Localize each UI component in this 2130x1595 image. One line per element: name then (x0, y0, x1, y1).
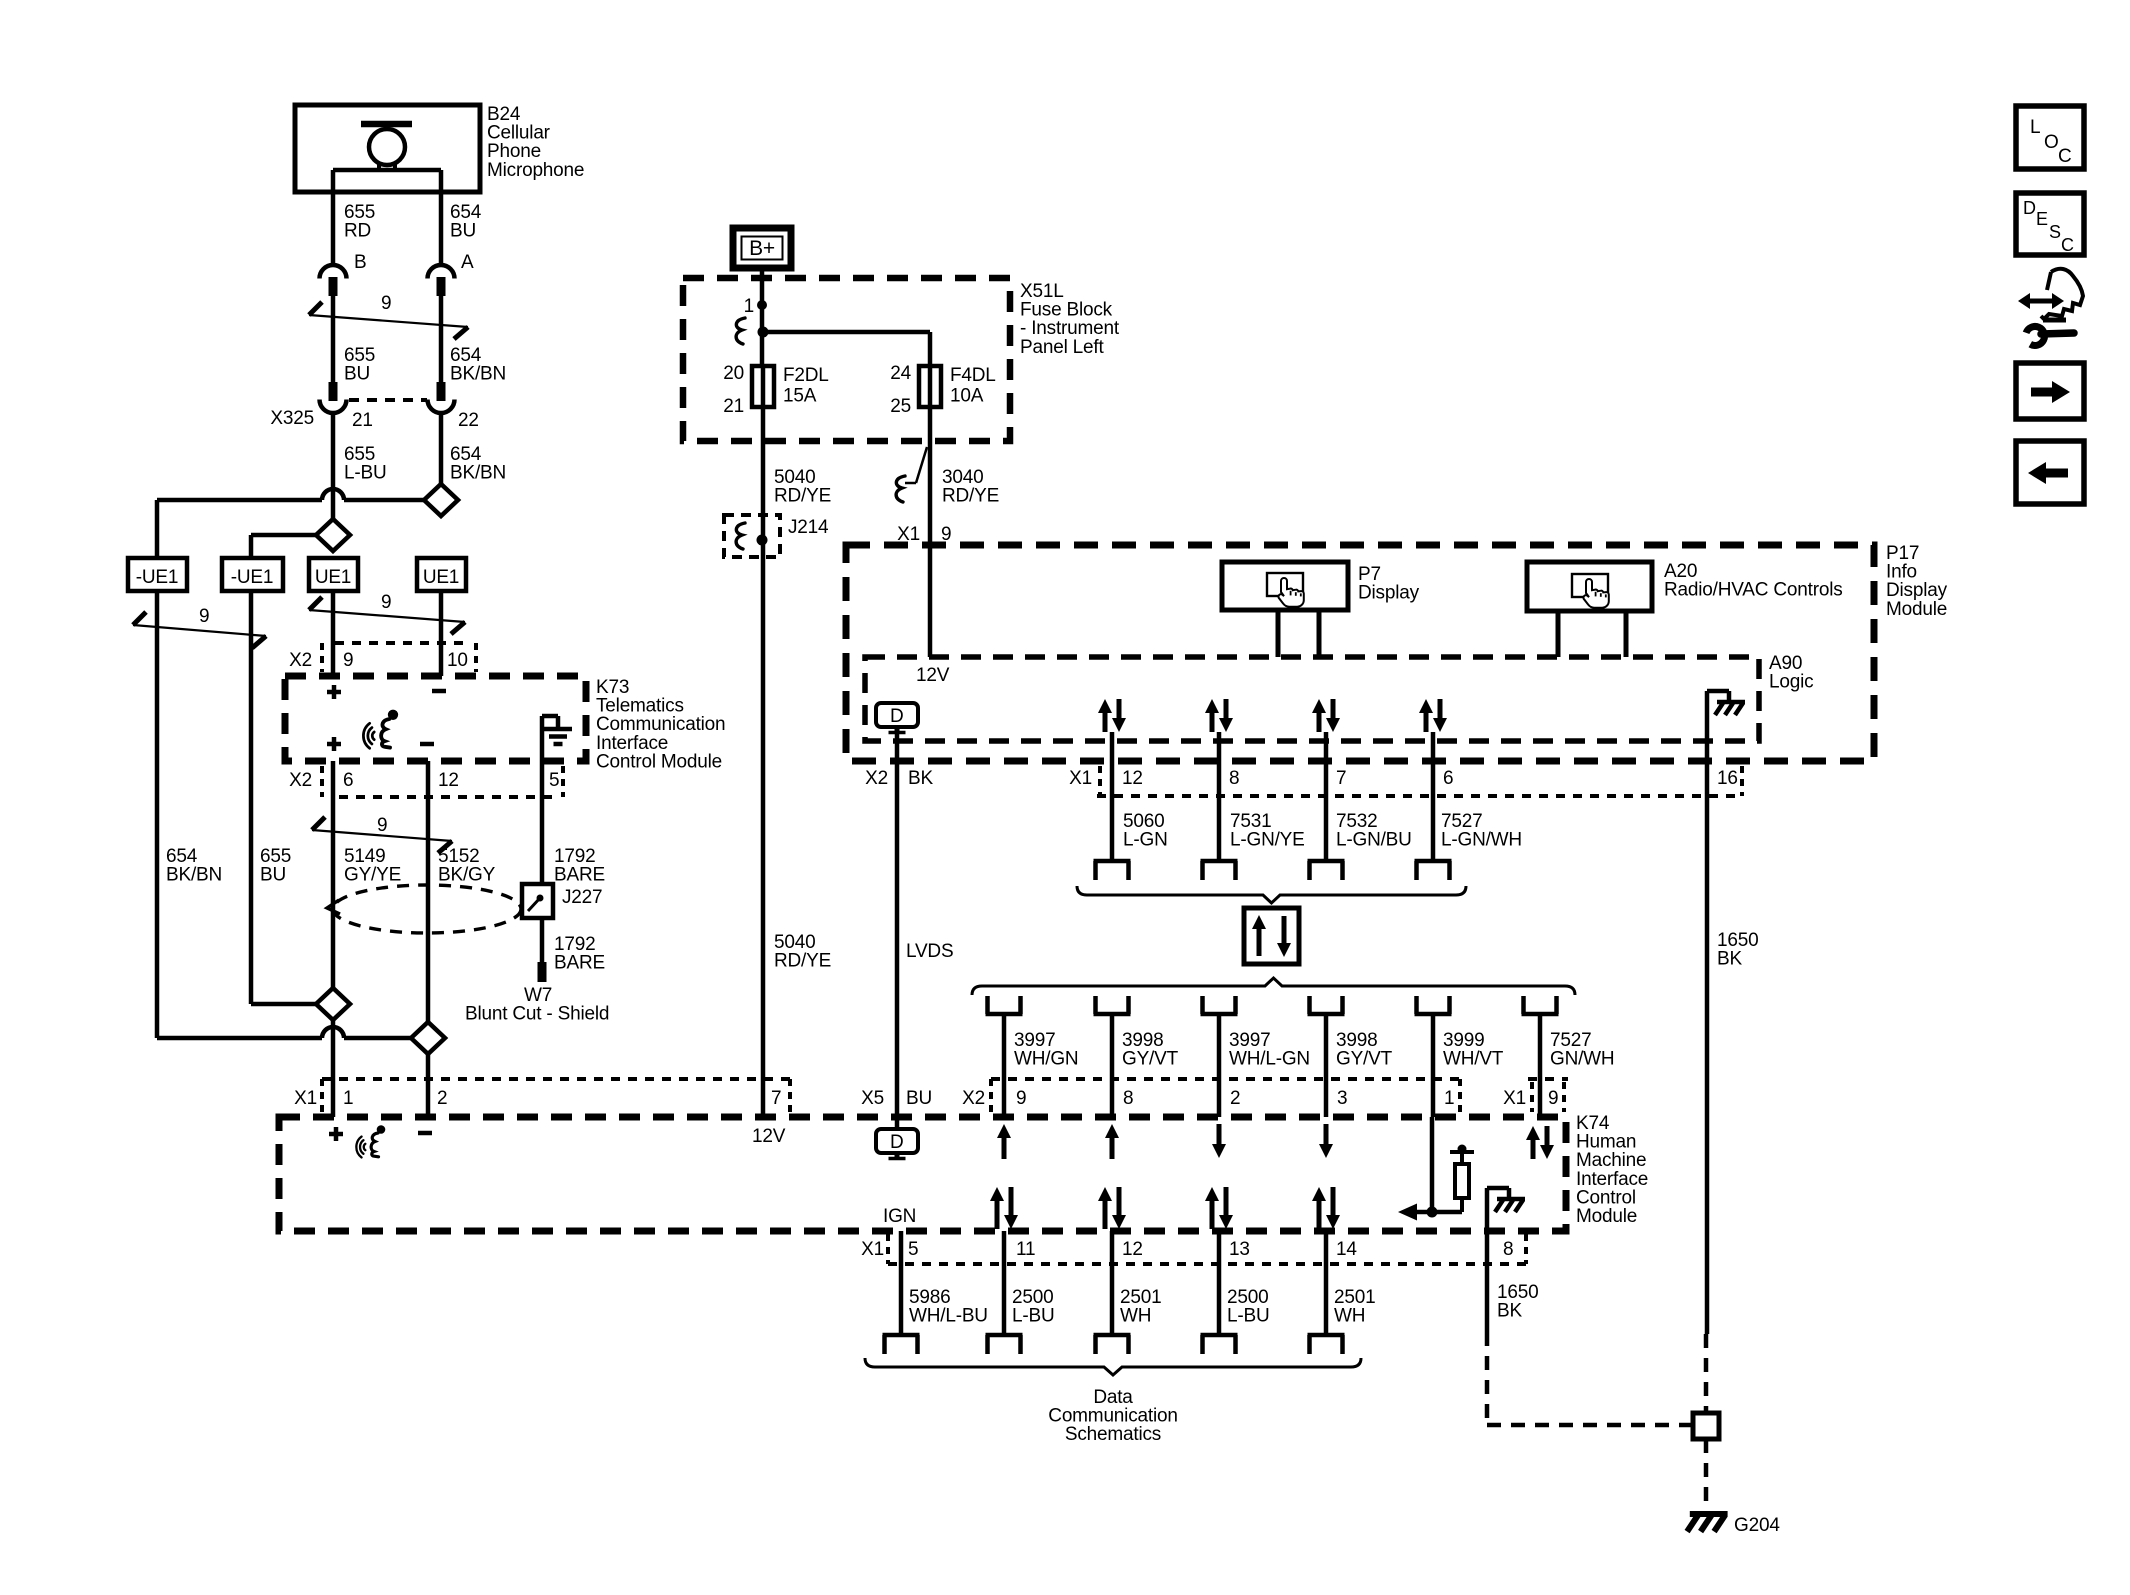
bus node arrow inside K74 (1398, 1204, 1462, 1221)
wire 654/5152 splice branch (with hop over 5149) (157, 1027, 411, 1038)
ground G204 (1687, 1514, 1728, 1532)
bus junction inside X51L (736, 318, 768, 344)
svg-text:X2: X2 (289, 650, 312, 671)
wire 5149 GY/YE from K73 pin 6 (331, 761, 336, 988)
wire branch 655 BU to left (251, 535, 316, 558)
wire BK (LVDS) from display D (895, 731, 900, 1129)
K74 receive arrow (pin 9) (997, 1124, 1011, 1159)
svg-text:5: 5 (908, 1239, 918, 1260)
svg-text:C: C (2061, 235, 2074, 255)
label P7 Display (1358, 564, 1420, 604)
label wire 5986 WH/L-BU (909, 1287, 988, 1327)
connector X1 pin 9 into P17 (897, 524, 951, 545)
svg-text:6: 6 (1443, 768, 1453, 789)
svg-text:9: 9 (381, 293, 391, 314)
bundle brace lower (972, 978, 1575, 995)
svg-text:S: S (2049, 222, 2061, 242)
cable terminal bus wire 3998 GY/VT (1308, 996, 1345, 1014)
splice J227 (522, 884, 553, 918)
svg-text:12: 12 (438, 770, 459, 791)
label wire 2500 L-BU (1012, 1287, 1055, 1327)
wire 1792 BARE from K73 pin 5 (540, 761, 545, 884)
svg-text:BU: BU (344, 364, 370, 385)
splice diamond 5152/654 (411, 1022, 445, 1054)
svg-text:B: B (354, 252, 366, 273)
svg-text:X1: X1 (1503, 1088, 1526, 1109)
data arrows in A90 (pin 8) (1205, 699, 1233, 732)
svg-text:Display: Display (1358, 583, 1420, 604)
svg-text:5: 5 (549, 770, 559, 791)
wire 2501 WH from K74 (1324, 1231, 1329, 1335)
label wire 654 BK/BN below X325 (450, 444, 506, 484)
label A20 Radio/HVAC Controls (1664, 561, 1843, 601)
svg-text:3: 3 (1337, 1088, 1347, 1109)
wire 654 BU from B24 pin A (439, 170, 444, 266)
svg-text:L-GN/YE: L-GN/YE (1230, 830, 1305, 851)
svg-text:LVDS: LVDS (906, 941, 953, 962)
svg-text:Control Module: Control Module (596, 751, 722, 772)
svg-text:RD/YE: RD/YE (774, 486, 831, 507)
label LVDS (906, 941, 953, 962)
svg-text:IGN: IGN (883, 1206, 916, 1227)
svg-text:9: 9 (343, 650, 353, 671)
svg-text:6: 6 (343, 770, 353, 791)
module P17 Info Display Module dashed box (846, 545, 1874, 761)
label wire 3997 WH/L-GN (1229, 1030, 1310, 1070)
K73 microphone - terminal (lower) (420, 742, 434, 747)
bundle brace Data Communication Schematics (865, 1358, 1361, 1375)
wire 2500 L-BU from K74 (1002, 1231, 1007, 1335)
cable terminal wire 2501 (1094, 1335, 1131, 1354)
label wire 5040 RD/YE (774, 467, 831, 507)
svg-text:G204: G204 (1734, 1515, 1780, 1536)
wire 2501 WH from K74 (1110, 1231, 1115, 1335)
svg-text:GN/WH: GN/WH (1550, 1049, 1614, 1070)
svg-text:-UE1: -UE1 (231, 567, 274, 588)
svg-text:25: 25 (890, 396, 911, 417)
connector X325 pin 21 terminal (320, 382, 347, 413)
svg-text:RD/YE: RD/YE (942, 486, 999, 507)
connector X2 of K73 top row (289, 643, 476, 672)
svg-text:BK/GY: BK/GY (438, 865, 496, 886)
svg-text:11: 11 (1016, 1239, 1035, 1260)
svg-text:BU: BU (906, 1088, 932, 1109)
svg-text:GY/VT: GY/VT (1122, 1049, 1179, 1070)
svg-text:X1: X1 (1069, 768, 1092, 789)
wire UE1 drop to K73 pin 10 (439, 591, 444, 676)
svg-text:E: E (2036, 209, 2048, 229)
svg-text:10A: 10A (950, 386, 984, 407)
inline connector terminal on wire 655 (pin B) (320, 265, 347, 296)
K74 microphone + terminal (329, 1127, 343, 1141)
data arrows in A90 (pin 7) (1312, 699, 1340, 732)
label J227 (562, 887, 602, 908)
svg-text:BK: BK (1717, 949, 1742, 970)
wire 3998 GY/VT segment (1110, 1014, 1115, 1117)
terminating resistor inside K74 (1450, 1145, 1474, 1213)
label 12V at P17 pin 9 (916, 665, 950, 686)
svg-text:12: 12 (1122, 768, 1143, 789)
wire 655 BU left drop (249, 591, 254, 1004)
svg-text:UE1: UE1 (423, 567, 459, 588)
label wire 5060 L-GN (1123, 811, 1168, 851)
svg-text:12V: 12V (916, 665, 950, 686)
svg-text:9: 9 (199, 606, 209, 627)
touch screen icon in A20 (1572, 574, 1609, 608)
svg-text:22: 22 (458, 410, 479, 431)
twisted pair marker 9 (right pair) (309, 592, 465, 634)
label wire 655 RD (344, 202, 375, 242)
svg-text:15A: 15A (783, 386, 817, 407)
svg-text:X2: X2 (865, 768, 888, 789)
K74 receive arrow (pin 8) (1105, 1124, 1119, 1159)
cable terminal wire 2500 (1201, 1335, 1238, 1354)
wire drop to K74 X1 pin 1 (331, 1020, 336, 1117)
wire 5060 L-GN from P17 pin 12 (1110, 732, 1115, 859)
svg-text:8: 8 (1229, 768, 1239, 789)
pin A of B24 (461, 252, 474, 273)
wire 655 BU segment (331, 296, 336, 383)
pin 22 of X325 (458, 410, 479, 431)
svg-text:GY/YE: GY/YE (344, 865, 401, 886)
cable terminal bus wire 3997 WH/L-GN (1201, 996, 1238, 1014)
svg-text:1: 1 (744, 296, 754, 317)
data arrows in A90 (pin 12) (1098, 699, 1126, 732)
twisted pair marker 9 (below K73) (312, 815, 452, 853)
svg-text:7: 7 (1336, 768, 1346, 789)
wire 655 L-BU segment to splice (331, 412, 336, 519)
svg-text:13: 13 (1229, 1239, 1250, 1260)
svg-text:L: L (2030, 117, 2040, 138)
splice diamond 5149/655 (316, 988, 350, 1020)
data bus icon (1244, 908, 1299, 964)
svg-text:UE1: UE1 (315, 567, 351, 588)
pin 21 of X325 (352, 410, 373, 431)
svg-text:BK/BN: BK/BN (450, 463, 506, 484)
connector X325 pin 22 terminal (428, 382, 455, 413)
label wire 654 BK/BN (450, 345, 506, 385)
cable terminal wire 2500 (986, 1335, 1023, 1354)
wire 7527 L-GN/WH from P17 pin 6 (1431, 732, 1436, 859)
splice J214 dashed box (724, 515, 780, 557)
in-line harness label UE1 (wire 5152) (417, 558, 466, 591)
connector row X1 under K74 (861, 1234, 1526, 1264)
logic block A90 dashed box (865, 657, 1759, 741)
svg-text:Blunt Cut - Shield: Blunt Cut - Shield (465, 1004, 609, 1025)
label K73 Telematics Communication Interface Control Module (596, 677, 725, 772)
label P17 Info Display Module (1886, 543, 1948, 620)
data arrows in A90 (pin 6) (1419, 699, 1447, 732)
touch screen icon in P7 (1267, 573, 1304, 607)
cable terminal bus wire 3999 WH/VT (1415, 996, 1452, 1014)
connector row X2/X1 above K74 (861, 1079, 1568, 1112)
svg-text:X1: X1 (861, 1239, 884, 1260)
svg-text:C: C (2058, 146, 2072, 167)
wire 3040 RD/YE from fuse F4DL (928, 407, 933, 657)
module K74 Human Machine Interface Control Module dashed box (279, 1117, 1566, 1231)
svg-text:L-BU: L-BU (344, 463, 387, 484)
svg-text:L-BU: L-BU (1012, 1306, 1055, 1327)
svg-text:BK/BN: BK/BN (450, 364, 506, 385)
svg-text:WH/L-BU: WH/L-BU (909, 1306, 988, 1327)
svg-text:B+: B+ (749, 237, 775, 260)
splice diamond on wire 655 (316, 519, 350, 551)
cable terminal bus wire 7527 GN/WH (1522, 996, 1559, 1014)
dashed wire to G204 (1704, 1439, 1709, 1501)
wire drop to K74 X1 pin 2 (426, 1054, 431, 1117)
svg-text:L-BU: L-BU (1227, 1306, 1270, 1327)
svg-text:9: 9 (377, 815, 387, 836)
wire 7527 GN/WH segment (1538, 1014, 1543, 1117)
label W7 Blunt Cut - Shield (465, 985, 609, 1025)
cable terminal pin 8 wire (1201, 861, 1238, 880)
shield drain oval around 5149/5152 (327, 885, 521, 933)
svg-text:-UE1: -UE1 (136, 567, 179, 588)
svg-text:20: 20 (723, 363, 744, 384)
wire 3997 WH/L-GN segment (1217, 1014, 1222, 1117)
svg-text:L-GN/WH: L-GN/WH (1441, 830, 1522, 851)
svg-text:X1: X1 (294, 1088, 317, 1109)
ground splice node (1693, 1413, 1719, 1439)
label wire 5040 RD/YE lower (774, 932, 831, 972)
label wire 3999 WH/VT (1443, 1030, 1504, 1070)
K73 microphone + terminal (upper) (327, 685, 341, 699)
connector row X1 of K74 (left) (294, 1079, 790, 1112)
wire 5040 RD/YE from fuse F2DL (761, 407, 766, 1117)
ground symbol inside A90 (1707, 691, 1745, 761)
splice diamond on wire 654 (424, 484, 458, 516)
label wire 7532 L-GN/BU (1336, 811, 1412, 851)
labels fuse F4DL 10A pins 24/25 (890, 363, 995, 417)
svg-text:7: 7 (771, 1088, 781, 1109)
bus wire to fuse F4DL (763, 332, 930, 366)
K73 microphone - terminal (upper) (432, 689, 446, 694)
svg-text:12: 12 (1122, 1239, 1143, 1260)
wire 1650 BK from K74 pin 8 (1485, 1231, 1490, 1332)
svg-text:Logic: Logic (1769, 672, 1813, 693)
bundle brace upper (1077, 886, 1466, 903)
wire from B+ into fuse block (760, 268, 765, 332)
K74 bus arrows above pin 14 (1312, 1187, 1340, 1229)
label wire 1650 BK left (1497, 1282, 1538, 1322)
K74 transmit arrow (pin 3) (1319, 1124, 1333, 1158)
svg-text:D: D (2023, 198, 2036, 218)
label wire 1792 BARE below J227 (554, 934, 605, 974)
svg-text:BARE: BARE (554, 953, 605, 974)
wire into fuse F2DL (760, 332, 765, 366)
wire branch 654 BK/BN to left (with hop over 655) (157, 489, 424, 558)
svg-text:J214: J214 (788, 517, 829, 538)
svg-text:9: 9 (381, 592, 391, 613)
label wire 7527 GN/WH (1550, 1030, 1614, 1070)
sidebar icon DESC (2016, 193, 2084, 255)
label 12V inside K74 (752, 1126, 786, 1147)
microphone pictograph inside K74 (356, 1125, 385, 1157)
label wire 1650 BK right (1717, 930, 1758, 970)
label wire 655 BU (344, 345, 375, 385)
wire 1650 BK dashed to ground splice (1487, 1332, 1693, 1425)
svg-text:BK/BN: BK/BN (166, 865, 222, 886)
svg-text:X5: X5 (861, 1088, 884, 1109)
svg-text:8: 8 (1123, 1088, 1133, 1109)
wire 5152 BK/GY from K73 pin 12 (426, 761, 431, 1022)
label wire 655 BU left column (260, 846, 291, 886)
svg-text:8: 8 (1503, 1239, 1513, 1260)
svg-text:RD: RD (344, 221, 371, 242)
wire 1650 BK from P17 pin 16 (1705, 761, 1710, 1334)
K74 bus arrows above pin 13 (1205, 1187, 1233, 1229)
display D icon in A90 (876, 703, 918, 733)
component A20 Radio/HVAC Controls box (1527, 562, 1652, 657)
svg-text:Microphone: Microphone (487, 160, 584, 181)
svg-text:Module: Module (1576, 1206, 1637, 1227)
svg-text:21: 21 (723, 396, 744, 417)
microphone symbol inside B24 (333, 124, 441, 170)
label wire 2500 L-BU (1227, 1287, 1270, 1327)
fuse F4DL 10A (919, 366, 941, 407)
svg-text:Panel Left: Panel Left (1020, 337, 1104, 358)
label wire 3998 GY/VT (1336, 1030, 1393, 1070)
sidebar icon LOC (2016, 106, 2084, 169)
display D icon in K74 (876, 1129, 918, 1159)
svg-text:WH/GN: WH/GN (1014, 1049, 1078, 1070)
wire 3999 WH/VT segment (1431, 1014, 1436, 1117)
svg-text:RD/YE: RD/YE (774, 951, 831, 972)
connector X325 dashed row (349, 398, 427, 402)
K74 bus arrows at pin X1-9 (1526, 1126, 1554, 1159)
svg-text:2: 2 (437, 1088, 447, 1109)
svg-text:1: 1 (343, 1088, 353, 1109)
svg-text:24: 24 (890, 363, 911, 384)
label wire 3997 WH/GN (1014, 1030, 1078, 1070)
label G204 (1734, 1515, 1780, 1536)
wire 7532 L-GN/BU from P17 pin 7 (1324, 732, 1329, 859)
label J214 (788, 517, 829, 538)
twisted pair marker 9 (top) (309, 293, 468, 339)
label X51L Fuse Block - Instrument Panel Left (1020, 281, 1120, 358)
svg-text:Module: Module (1886, 599, 1947, 620)
label wire 2501 WH (1334, 1287, 1375, 1327)
svg-text:F2DL: F2DL (783, 365, 829, 386)
cable terminal wire 2501 (1308, 1335, 1345, 1354)
label K74 Human Machine Interface Control Module (1576, 1113, 1648, 1227)
label B24 Cellular Phone Microphone (487, 104, 584, 181)
wire 654 BK/BN segment (439, 296, 444, 383)
svg-text:WH/L-GN: WH/L-GN (1229, 1049, 1310, 1070)
svg-text:BK: BK (908, 768, 933, 789)
wire 2500 L-BU from K74 (1217, 1231, 1222, 1335)
component P7 Display box (1222, 562, 1348, 657)
wire UE1 drop to K73 pin 9 (331, 591, 336, 676)
K74 bus arrows above pin 12 (1098, 1187, 1126, 1229)
cable terminal pin 12 wire (1094, 861, 1131, 880)
cable terminal bus wire 3998 GY/VT (1094, 996, 1131, 1014)
connector X2 of K73 bottom row (289, 766, 563, 797)
svg-text:21: 21 (352, 410, 373, 431)
label wire 3040 RD/YE (942, 467, 999, 507)
power feed B+ (733, 228, 791, 268)
label wire 7527 L-GN/WH (1441, 811, 1522, 851)
wire 655/5149 splice branch (251, 1002, 316, 1007)
microphone pictograph inside K73 (363, 710, 398, 749)
svg-text:10: 10 (447, 650, 468, 671)
label wire 654 BK/BN left column (166, 846, 222, 886)
cable terminal wire 5986 (883, 1335, 920, 1354)
svg-text:X2: X2 (962, 1088, 985, 1109)
in-line harness label UE1 (wire 5149) (309, 558, 358, 591)
svg-text:BU: BU (260, 865, 286, 886)
svg-text:X325: X325 (270, 408, 314, 429)
svg-text:O: O (2044, 132, 2059, 153)
svg-text:2: 2 (1230, 1088, 1240, 1109)
svg-text:9: 9 (1548, 1088, 1558, 1109)
fuse F2DL 15A (752, 366, 774, 407)
label wire 1792 BARE (554, 846, 605, 886)
svg-text:Schematics: Schematics (1065, 1424, 1161, 1445)
wire 654 BK/BN long left drop (155, 591, 160, 1038)
K73 microphone + terminal (lower) (327, 737, 341, 751)
in-line harness label -UE1 (wire 654 BK/BN) (128, 558, 187, 591)
labels fuse F2DL 15A pins 20/21 (723, 363, 828, 417)
cable terminal pin 7 wire (1308, 861, 1345, 880)
inline connector terminal on wire 654 (pin A) (428, 265, 455, 296)
label X325 (270, 408, 314, 429)
svg-text:WH/VT: WH/VT (1443, 1049, 1504, 1070)
cable terminal bus wire 3997 WH/GN (986, 996, 1023, 1014)
svg-text:D: D (890, 706, 904, 727)
ground symbol inside K73 (542, 716, 572, 761)
svg-text:1: 1 (1444, 1088, 1454, 1109)
twisted pair marker 9 (left pair) (133, 606, 266, 648)
label wire 654 BU (450, 202, 482, 242)
svg-text:16: 16 (1717, 768, 1738, 789)
svg-text:BU: BU (450, 221, 476, 242)
wire from K74 pin 1 to terminator (1430, 1117, 1435, 1212)
takeout marker on wire 3040 (896, 447, 927, 502)
svg-text:D: D (890, 1132, 904, 1153)
label A90 Logic (1769, 653, 1813, 693)
svg-text:Radio/HVAC Controls: Radio/HVAC Controls (1664, 580, 1843, 601)
wire 654 BK/BN segment to splice (439, 412, 444, 484)
fuse block X51L dashed box (683, 278, 1010, 441)
connector row X2/X1 under P17 (865, 766, 1742, 796)
K74 bus arrows above pin 11 (990, 1187, 1018, 1229)
svg-text:L-GN: L-GN (1123, 830, 1168, 851)
wire 3997 WH/GN segment (1002, 1014, 1007, 1117)
wire 1650 BK dashed segment (1704, 1334, 1709, 1413)
label wire 5149 GY/YE (344, 846, 401, 886)
svg-text:L-GN/BU: L-GN/BU (1336, 830, 1412, 851)
svg-text:WH: WH (1334, 1306, 1365, 1327)
svg-text:BK: BK (1497, 1301, 1522, 1322)
svg-text:X2: X2 (289, 770, 312, 791)
label IGN inside K74 (883, 1206, 916, 1227)
component B24 Cellular Phone Microphone box (295, 105, 480, 192)
in-line harness label -UE1 (wire 655 BU) (222, 558, 283, 591)
sidebar icon arrow left (2016, 441, 2084, 504)
wire 655 RD from B24 pin B (331, 170, 336, 266)
wire 5986 WH/L-BU from K74 (899, 1231, 904, 1335)
svg-text:WH: WH (1120, 1306, 1151, 1327)
svg-text:F4DL: F4DL (950, 365, 996, 386)
svg-text:J227: J227 (562, 887, 602, 908)
label Data Communication Schematics (1048, 1387, 1177, 1445)
sidebar icon arrow right (2016, 363, 2084, 419)
wire 3998 GY/VT segment (1324, 1014, 1329, 1117)
label wire 655 L-BU (344, 444, 387, 484)
svg-text:GY/VT: GY/VT (1336, 1049, 1393, 1070)
label wire 7531 L-GN/YE (1230, 811, 1305, 851)
